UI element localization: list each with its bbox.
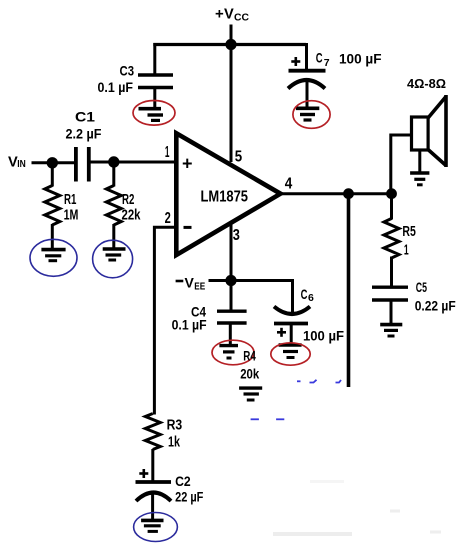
svg-text:EE: EE <box>194 282 205 293</box>
svg-text:C3: C3 <box>120 64 135 79</box>
svg-text:C2: C2 <box>175 473 191 489</box>
svg-text:R4: R4 <box>243 349 256 364</box>
svg-text:1M: 1M <box>64 206 79 223</box>
svg-text:R2: R2 <box>122 191 134 208</box>
svg-text:7: 7 <box>324 57 330 69</box>
svg-text:2.2 µF: 2.2 µF <box>66 127 102 142</box>
svg-text:6: 6 <box>308 292 314 304</box>
svg-text:C5: C5 <box>416 279 427 295</box>
svg-text:R5: R5 <box>402 224 415 240</box>
svg-text:0.1 µF: 0.1 µF <box>172 317 207 332</box>
svg-text:100 µF: 100 µF <box>339 52 382 67</box>
svg-text:0.1 µF: 0.1 µF <box>98 80 134 95</box>
svg-text:+: + <box>182 154 193 174</box>
svg-text:R3: R3 <box>167 418 183 434</box>
svg-text:C: C <box>301 287 308 302</box>
svg-text:1k: 1k <box>168 435 181 451</box>
svg-text:1: 1 <box>404 242 409 258</box>
svg-text:20k: 20k <box>240 367 259 382</box>
svg-text:1: 1 <box>165 144 170 161</box>
svg-text:C1: C1 <box>75 110 96 125</box>
svg-text:V: V <box>224 6 234 22</box>
svg-text:0.22 µF: 0.22 µF <box>415 299 456 314</box>
svg-text:4Ω-8Ω: 4Ω-8Ω <box>407 76 446 91</box>
svg-text:C: C <box>316 51 323 66</box>
svg-text:5: 5 <box>235 148 243 165</box>
svg-text:2: 2 <box>165 210 171 227</box>
svg-text:+: + <box>215 6 224 23</box>
svg-text:22 µF: 22 µF <box>175 489 204 505</box>
svg-text:IN: IN <box>17 159 26 170</box>
svg-text:4: 4 <box>285 175 293 192</box>
svg-text:LM1875: LM1875 <box>201 188 249 205</box>
svg-text:22k: 22k <box>122 207 141 224</box>
svg-text:100 µF: 100 µF <box>303 329 344 344</box>
svg-text:3: 3 <box>233 227 240 244</box>
svg-text:V: V <box>185 275 195 291</box>
svg-text:CC: CC <box>234 13 250 24</box>
